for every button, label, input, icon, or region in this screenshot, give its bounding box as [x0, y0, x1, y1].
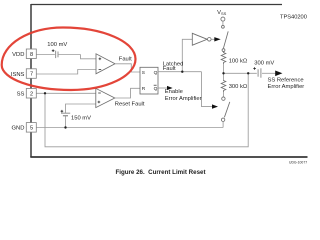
svg-text:Fault: Fault: [119, 56, 132, 62]
svg-text:8: 8: [30, 52, 33, 58]
svg-text:Enable: Enable: [165, 89, 183, 95]
svg-text:Q: Q: [154, 86, 158, 92]
svg-text:300 kΩ: 300 kΩ: [229, 84, 248, 90]
svg-text:UDG-10077: UDG-10077: [289, 160, 307, 164]
svg-text:Reset Fault: Reset Fault: [115, 101, 145, 107]
svg-text:SS: SS: [17, 92, 25, 98]
svg-text:S: S: [142, 70, 145, 76]
svg-text:300 mV: 300 mV: [254, 60, 274, 66]
svg-text:100 kΩ: 100 kΩ: [229, 58, 248, 64]
svg-text:TPS40200: TPS40200: [280, 15, 307, 21]
svg-text:100 mV: 100 mV: [47, 42, 67, 48]
svg-text:VDD: VDD: [12, 52, 24, 58]
svg-text:Figure 26. Current Limit Rese: Figure 26. Current Limit Reset: [115, 169, 205, 176]
svg-text:SS Reference: SS Reference: [268, 77, 304, 83]
svg-text:Error Amplifier: Error Amplifier: [165, 96, 202, 102]
svg-text:Error Amplifier: Error Amplifier: [268, 84, 305, 90]
svg-text:GND: GND: [12, 126, 25, 132]
svg-text:5: 5: [30, 125, 33, 131]
svg-text:Fault: Fault: [163, 66, 176, 72]
svg-text:R: R: [142, 86, 146, 92]
svg-text:2: 2: [30, 91, 33, 97]
svg-text:7: 7: [30, 72, 33, 78]
svg-text:150 mV: 150 mV: [71, 116, 91, 122]
svg-text:ISNS: ISNS: [11, 72, 25, 78]
svg-text:Q: Q: [154, 70, 158, 76]
svg-text:VSS: VSS: [217, 10, 227, 16]
